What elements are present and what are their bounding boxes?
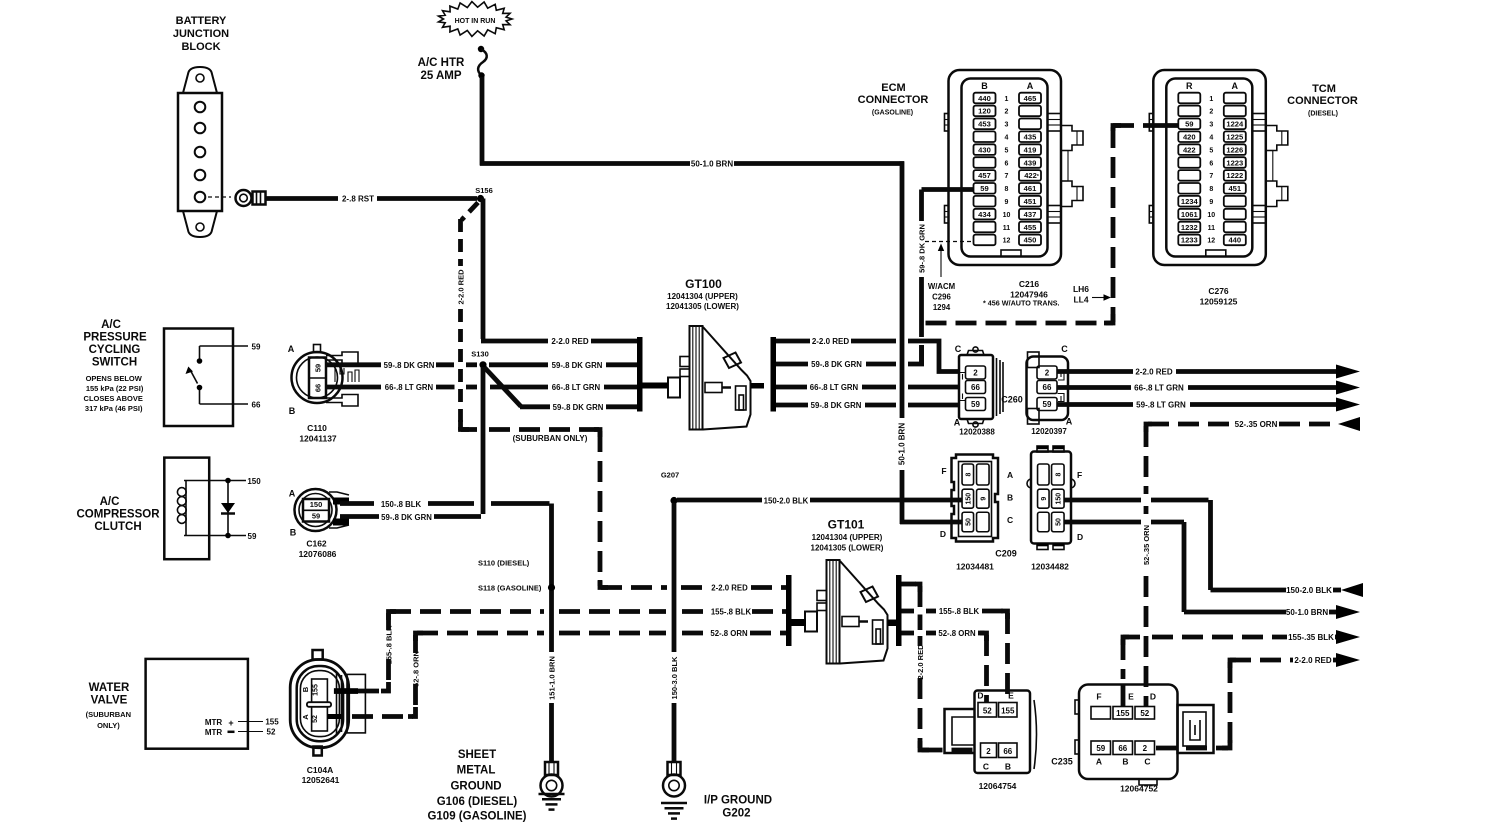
- svg-text:66-.8 LT GRN: 66-.8 LT GRN: [552, 383, 601, 392]
- svg-text:317 kPa (46 PSI): 317 kPa (46 PSI): [85, 404, 143, 413]
- svg-text:12047946: 12047946: [1010, 290, 1048, 300]
- svg-text:D: D: [1077, 532, 1083, 542]
- svg-text:B: B: [1122, 757, 1128, 767]
- svg-text:12: 12: [1207, 238, 1215, 245]
- svg-text:8: 8: [1209, 186, 1213, 193]
- svg-text:66: 66: [1043, 383, 1052, 392]
- svg-text:12041304 (UPPER): 12041304 (UPPER): [812, 533, 883, 542]
- svg-text:4: 4: [1209, 135, 1213, 142]
- svg-text:59: 59: [1096, 744, 1105, 753]
- svg-text:G207: G207: [661, 471, 679, 480]
- svg-text:C235: C235: [1051, 757, 1073, 767]
- svg-text:9: 9: [1041, 497, 1048, 501]
- svg-text:2-2.0 RED: 2-2.0 RED: [456, 269, 465, 305]
- svg-text:453: 453: [978, 120, 991, 129]
- svg-text:W/ACM: W/ACM: [928, 282, 955, 291]
- svg-text:12059125: 12059125: [1200, 297, 1238, 307]
- svg-text:A/C HTR: A/C HTR: [418, 57, 465, 69]
- svg-text:59-.8 DK GRN: 59-.8 DK GRN: [811, 360, 862, 369]
- svg-text:12020397: 12020397: [1031, 427, 1067, 436]
- svg-text:R: R: [1186, 81, 1193, 91]
- svg-text:52: 52: [312, 715, 319, 723]
- svg-text:155: 155: [313, 684, 320, 696]
- svg-text:SWITCH: SWITCH: [92, 357, 137, 369]
- svg-text:1: 1: [1005, 96, 1009, 103]
- svg-text:150-3.0 BLK: 150-3.0 BLK: [670, 656, 679, 700]
- svg-text:59: 59: [252, 343, 261, 352]
- svg-text:59: 59: [314, 364, 323, 372]
- svg-text:B: B: [290, 528, 297, 538]
- svg-text:437: 437: [1024, 210, 1037, 219]
- svg-text:2-2.0 RED: 2-2.0 RED: [551, 337, 589, 346]
- svg-text:B: B: [1005, 762, 1011, 772]
- svg-text:SHEET: SHEET: [458, 749, 496, 761]
- svg-text:1223: 1223: [1226, 158, 1243, 167]
- svg-text:1224: 1224: [1226, 120, 1244, 129]
- svg-text:59: 59: [980, 184, 988, 193]
- svg-text:8: 8: [965, 472, 972, 476]
- svg-text:1061: 1061: [1181, 210, 1199, 219]
- svg-text:C296: C296: [932, 293, 951, 302]
- svg-text:+: +: [228, 718, 233, 728]
- svg-text:(SUBURBAN: (SUBURBAN: [86, 710, 131, 719]
- svg-text:F: F: [1077, 470, 1082, 480]
- svg-text:434: 434: [978, 210, 991, 219]
- svg-text:C260: C260: [1001, 395, 1023, 405]
- svg-text:B: B: [981, 81, 988, 91]
- svg-text:2: 2: [1209, 109, 1213, 116]
- svg-text:455: 455: [1024, 223, 1037, 232]
- svg-text:C216: C216: [1019, 279, 1040, 289]
- svg-text:VALVE: VALVE: [91, 695, 128, 707]
- svg-text:66: 66: [252, 401, 261, 410]
- svg-text:4: 4: [1005, 135, 1009, 142]
- svg-text:52-.35 ORN: 52-.35 ORN: [1235, 420, 1278, 429]
- svg-text:59-.8 DK GRN: 59-.8 DK GRN: [811, 401, 862, 410]
- svg-text:151-1.0 BRN: 151-1.0 BRN: [547, 656, 556, 700]
- svg-text:C110: C110: [307, 423, 327, 433]
- svg-text:HOT IN RUN: HOT IN RUN: [455, 18, 496, 25]
- svg-text:A: A: [288, 344, 295, 354]
- svg-text:12041305 (LOWER): 12041305 (LOWER): [811, 544, 884, 553]
- svg-text:B: B: [1007, 493, 1013, 503]
- svg-text:66: 66: [314, 384, 323, 392]
- svg-text:150: 150: [965, 493, 972, 505]
- svg-text:ECM: ECM: [881, 82, 905, 94]
- svg-text:GT100: GT100: [685, 277, 722, 291]
- svg-text:1225: 1225: [1226, 133, 1244, 142]
- svg-text:59: 59: [312, 511, 320, 520]
- svg-text:BLOCK: BLOCK: [181, 41, 220, 53]
- svg-text:5: 5: [1209, 147, 1213, 154]
- svg-text:D: D: [1150, 692, 1156, 702]
- svg-text:50-1.0 BRN: 50-1.0 BRN: [691, 160, 733, 169]
- svg-text:12034482: 12034482: [1031, 562, 1069, 572]
- svg-text:GROUND: GROUND: [450, 781, 501, 793]
- svg-text:155: 155: [1116, 709, 1130, 718]
- svg-text:C162: C162: [306, 539, 327, 549]
- svg-text:66-.8 LT GRN: 66-.8 LT GRN: [810, 383, 859, 392]
- svg-text:439: 439: [1024, 158, 1037, 167]
- svg-text:2-2.0 RED: 2-2.0 RED: [812, 337, 850, 346]
- svg-text:435: 435: [1024, 133, 1037, 142]
- svg-text:2-2.0 RED: 2-2.0 RED: [1294, 656, 1332, 665]
- svg-text:C276: C276: [1208, 286, 1229, 296]
- svg-text:D: D: [977, 691, 983, 701]
- svg-text:66-.8 LT GRN: 66-.8 LT GRN: [385, 383, 434, 392]
- svg-text:9: 9: [980, 497, 987, 501]
- svg-text:155-.8 BLK: 155-.8 BLK: [384, 625, 393, 664]
- svg-text:12: 12: [1003, 238, 1011, 245]
- svg-text:150-2.0 BLK: 150-2.0 BLK: [1286, 586, 1332, 595]
- svg-text:465: 465: [1024, 94, 1037, 103]
- svg-text:59: 59: [248, 532, 257, 541]
- svg-text:450: 450: [1024, 236, 1037, 245]
- svg-text:G109 (GASOLINE): G109 (GASOLINE): [427, 811, 526, 823]
- svg-text:10: 10: [1207, 212, 1215, 219]
- svg-text:1232: 1232: [1181, 223, 1198, 232]
- svg-text:12076086: 12076086: [299, 549, 337, 559]
- svg-text:12041304 (UPPER): 12041304 (UPPER): [667, 292, 738, 301]
- svg-text:S110 (DIESEL): S110 (DIESEL): [478, 559, 530, 568]
- svg-text:155: 155: [265, 718, 279, 727]
- svg-text:12020388: 12020388: [959, 428, 995, 437]
- svg-text:COMPRESSOR: COMPRESSOR: [76, 509, 160, 521]
- svg-text:150: 150: [1055, 493, 1062, 505]
- svg-text:A: A: [1007, 470, 1013, 480]
- svg-text:150: 150: [310, 500, 323, 509]
- svg-text:52-.8 ORN: 52-.8 ORN: [710, 629, 748, 638]
- svg-text:1222: 1222: [1226, 171, 1243, 180]
- svg-text:C: C: [983, 762, 989, 772]
- svg-text:155: 155: [1001, 707, 1015, 716]
- svg-text:457: 457: [978, 171, 991, 180]
- svg-text:CONNECTOR: CONNECTOR: [1287, 95, 1358, 107]
- svg-text:150: 150: [247, 477, 261, 486]
- svg-text:A: A: [1027, 81, 1034, 91]
- svg-text:9: 9: [1209, 199, 1213, 206]
- svg-text:52-.8 ORN: 52-.8 ORN: [938, 629, 976, 638]
- svg-text:BATTERY: BATTERY: [176, 15, 227, 27]
- svg-text:422: 422: [1183, 145, 1196, 154]
- svg-text:METAL: METAL: [457, 765, 496, 777]
- svg-text:461: 461: [1024, 184, 1037, 193]
- svg-text:12052641: 12052641: [302, 775, 340, 785]
- svg-text:59-.8 LT GRN: 59-.8 LT GRN: [1136, 401, 1186, 410]
- svg-text:I/P GROUND: I/P GROUND: [704, 795, 772, 807]
- svg-text:S130: S130: [471, 350, 489, 359]
- svg-text:A: A: [301, 714, 310, 720]
- svg-text:CLOSES ABOVE: CLOSES ABOVE: [84, 394, 143, 403]
- svg-text:59-.8 DK GRN: 59-.8 DK GRN: [381, 513, 432, 522]
- svg-text:2: 2: [973, 369, 978, 378]
- svg-text:8: 8: [1005, 186, 1009, 193]
- svg-text:D: D: [940, 529, 946, 539]
- svg-text:59-.8 DK GRN: 59-.8 DK GRN: [384, 361, 435, 370]
- svg-text:3: 3: [1005, 122, 1009, 129]
- svg-text:C: C: [1144, 757, 1150, 767]
- svg-text:G106 (DIESEL): G106 (DIESEL): [437, 796, 518, 808]
- svg-text:59: 59: [1185, 120, 1193, 129]
- svg-text:12064752: 12064752: [1120, 784, 1158, 794]
- svg-text:MTR: MTR: [205, 718, 223, 727]
- svg-text:50: 50: [1055, 518, 1062, 526]
- svg-text:6: 6: [1005, 160, 1009, 167]
- svg-text:C209: C209: [995, 549, 1017, 559]
- svg-text:C: C: [1007, 515, 1013, 525]
- svg-text:LL4: LL4: [1073, 295, 1088, 305]
- svg-text:B: B: [301, 686, 310, 692]
- svg-text:2: 2: [986, 747, 991, 756]
- svg-text:CLUTCH: CLUTCH: [94, 521, 141, 533]
- svg-text:C104A: C104A: [307, 765, 333, 775]
- svg-text:59-.8 DK GRN: 59-.8 DK GRN: [917, 224, 926, 273]
- svg-text:422*: 422*: [1024, 171, 1039, 180]
- svg-text:GT101: GT101: [828, 518, 865, 532]
- svg-text:12034481: 12034481: [956, 562, 994, 572]
- svg-text:2: 2: [1005, 109, 1009, 116]
- svg-text:150-2.0 BLK: 150-2.0 BLK: [764, 496, 809, 505]
- svg-text:7: 7: [1209, 173, 1213, 180]
- svg-text:440: 440: [1228, 236, 1241, 245]
- svg-text:C: C: [1061, 344, 1068, 354]
- svg-text:52-.8 ORN: 52-.8 ORN: [411, 651, 420, 687]
- svg-text:59-.8 DK GRN: 59-.8 DK GRN: [552, 361, 603, 370]
- svg-text:451: 451: [1024, 197, 1037, 206]
- svg-text:CONNECTOR: CONNECTOR: [858, 94, 929, 106]
- svg-text:59: 59: [971, 400, 980, 409]
- svg-text:155-.8 BLK: 155-.8 BLK: [711, 608, 752, 617]
- svg-text:3: 3: [1209, 122, 1213, 129]
- svg-text:12041305 (LOWER): 12041305 (LOWER): [666, 302, 739, 311]
- svg-text:2: 2: [1143, 744, 1148, 753]
- svg-text:59-.8 DK GRN: 59-.8 DK GRN: [553, 403, 604, 412]
- svg-text:E: E: [1008, 691, 1014, 701]
- svg-text:6: 6: [1209, 160, 1213, 167]
- svg-text:419: 419: [1024, 145, 1037, 154]
- svg-text:2: 2: [1045, 369, 1050, 378]
- svg-text:120: 120: [978, 107, 991, 116]
- svg-text:66-.8 LT GRN: 66-.8 LT GRN: [1134, 384, 1184, 393]
- svg-text:10: 10: [1003, 212, 1011, 219]
- svg-text:(DIESEL): (DIESEL): [1308, 111, 1338, 118]
- svg-text:OPENS BELOW: OPENS BELOW: [86, 374, 143, 383]
- svg-text:JUNCTION: JUNCTION: [173, 28, 229, 40]
- svg-text:1294: 1294: [933, 303, 951, 312]
- svg-text:420: 420: [1183, 133, 1196, 142]
- svg-text:8: 8: [1055, 472, 1062, 476]
- svg-text:451: 451: [1228, 184, 1241, 193]
- svg-text:E: E: [1128, 692, 1134, 702]
- svg-text:1: 1: [1209, 96, 1213, 103]
- svg-text:1226: 1226: [1226, 145, 1243, 154]
- svg-text:66: 66: [1118, 744, 1127, 753]
- svg-text:* 456 W/AUTO TRANS.: * 456 W/AUTO TRANS.: [983, 299, 1060, 308]
- svg-text:A: A: [1096, 757, 1102, 767]
- svg-text:B: B: [289, 406, 296, 416]
- svg-text:WATER: WATER: [89, 682, 130, 694]
- svg-text:12064754: 12064754: [979, 781, 1017, 791]
- svg-text:CYCLING: CYCLING: [89, 344, 141, 356]
- svg-text:F: F: [1096, 692, 1101, 702]
- svg-text:11: 11: [1003, 225, 1011, 232]
- svg-text:1233: 1233: [1181, 236, 1198, 245]
- svg-text:52: 52: [983, 707, 992, 716]
- svg-text:TCM: TCM: [1312, 83, 1336, 95]
- svg-text:A/C: A/C: [100, 496, 120, 508]
- svg-text:1234: 1234: [1181, 197, 1199, 206]
- svg-text:150-.8 BLK: 150-.8 BLK: [381, 500, 422, 509]
- svg-text:S118 (GASOLINE): S118 (GASOLINE): [478, 584, 542, 593]
- svg-text:25 AMP: 25 AMP: [420, 70, 461, 82]
- svg-text:52: 52: [267, 728, 276, 737]
- svg-text:A: A: [289, 489, 296, 499]
- svg-text:2-.8 RST: 2-.8 RST: [342, 195, 374, 204]
- svg-text:155 kPa (22 PSI): 155 kPa (22 PSI): [86, 384, 144, 393]
- svg-text:(SUBURBAN ONLY): (SUBURBAN ONLY): [513, 434, 588, 443]
- svg-text:(GASOLINE): (GASOLINE): [872, 110, 913, 117]
- svg-text:2-2.0 RED: 2-2.0 RED: [711, 584, 748, 593]
- svg-text:A: A: [1066, 417, 1073, 427]
- svg-text:50-1.0 BRN: 50-1.0 BRN: [898, 423, 907, 465]
- svg-text:59: 59: [1043, 400, 1052, 409]
- svg-text:2-2.0 RED: 2-2.0 RED: [916, 644, 925, 680]
- svg-text:440: 440: [978, 94, 991, 103]
- svg-text:5: 5: [1005, 147, 1009, 154]
- svg-text:ONLY): ONLY): [97, 721, 120, 730]
- svg-text:A: A: [1232, 81, 1239, 91]
- svg-text:52-.35 ORN: 52-.35 ORN: [1142, 525, 1151, 565]
- svg-text:LH6: LH6: [1073, 284, 1089, 294]
- svg-text:52: 52: [1140, 709, 1149, 718]
- svg-text:155-.35 BLK: 155-.35 BLK: [1288, 633, 1334, 642]
- svg-text:7: 7: [1005, 173, 1009, 180]
- svg-text:66: 66: [1003, 747, 1012, 756]
- svg-text:11: 11: [1208, 225, 1216, 232]
- svg-text:C: C: [955, 344, 962, 354]
- svg-text:A/C: A/C: [101, 319, 121, 331]
- svg-text:A: A: [954, 418, 961, 428]
- svg-text:430: 430: [978, 145, 991, 154]
- svg-text:155-.8 BLK: 155-.8 BLK: [939, 607, 980, 616]
- svg-text:66: 66: [971, 383, 980, 392]
- svg-text:50-1.0 BRN: 50-1.0 BRN: [1286, 608, 1328, 617]
- svg-text:PRESSURE: PRESSURE: [83, 332, 147, 344]
- svg-text:9: 9: [1005, 199, 1009, 206]
- svg-text:50: 50: [965, 518, 972, 526]
- svg-text:G202: G202: [722, 808, 750, 820]
- svg-text:S156: S156: [475, 186, 493, 195]
- svg-text:F: F: [941, 466, 946, 476]
- svg-text:2-2.0 RED: 2-2.0 RED: [1135, 368, 1173, 377]
- svg-text:MTR: MTR: [205, 728, 223, 737]
- svg-text:12041137: 12041137: [299, 434, 337, 444]
